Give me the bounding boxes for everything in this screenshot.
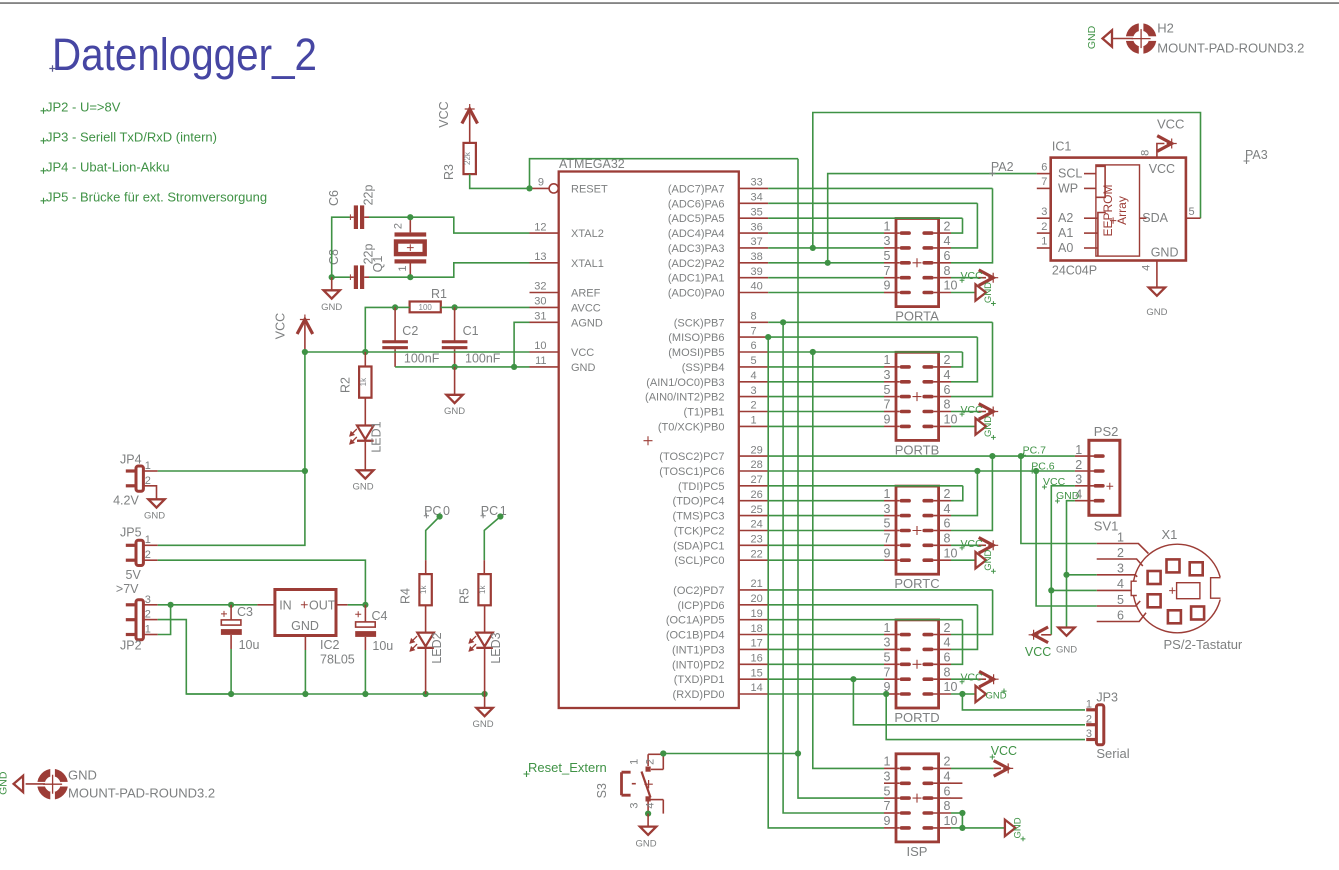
junction PC7 a (989, 453, 995, 459)
junction R1 right (452, 304, 458, 310)
label Reset_Extern (524, 760, 607, 777)
mcu pin 27 (TDI)PC5 (678, 474, 768, 493)
junction crystal pin2 (407, 214, 413, 220)
hook PC7 to PORTC pin6 (951, 456, 992, 530)
svg-text:2: 2 (944, 755, 951, 769)
svg-text:8: 8 (944, 264, 951, 278)
svg-text:IC2: IC2 (320, 638, 340, 652)
wire PA2 to PORTA pin5 (768, 262, 884, 264)
svg-text:10: 10 (944, 413, 958, 427)
label C8 value 22p (362, 244, 376, 265)
svg-text:OUT: OUT (309, 599, 336, 613)
svg-text:5: 5 (1189, 206, 1195, 218)
pin IC2 GND (304, 636, 306, 695)
svg-text:GND: GND (983, 282, 994, 303)
svg-text:IC1: IC1 (1052, 140, 1072, 154)
svg-text:PA3: PA3 (1245, 148, 1268, 162)
svg-text:RESET: RESET (571, 183, 608, 195)
hook PA5 to PORTA pin2 (951, 218, 963, 233)
label C4 value 10u (372, 639, 393, 653)
svg-text:34: 34 (751, 192, 763, 204)
svg-text:3: 3 (884, 368, 891, 382)
junction PORTD gnd (959, 691, 965, 697)
wire PB0 to PORTB pin9 (768, 425, 884, 427)
hook PD6 to PORTD pin4 (951, 605, 978, 650)
svg-text:GND: GND (1056, 645, 1077, 656)
vcc arrow PORTD pin8 (951, 671, 999, 687)
wire JP5 pin2 to OUT node (143, 560, 365, 605)
label VCC vertical (left rail) (274, 313, 288, 339)
label C2 value 100nF (404, 352, 440, 366)
svg-text:A2: A2 (1058, 211, 1073, 225)
junction PC6 a (974, 468, 980, 474)
svg-text:10: 10 (944, 546, 958, 560)
svg-text:GND: GND (1151, 245, 1179, 259)
svg-text:LED2: LED2 (430, 632, 444, 663)
svg-text:C6: C6 (327, 190, 341, 206)
switch S3 (622, 754, 664, 813)
label 5V (126, 568, 142, 582)
svg-text:MOUNT-PAD-ROUND3.2: MOUNT-PAD-ROUND3.2 (68, 786, 215, 801)
wire PA5 row (768, 217, 962, 219)
junction PA3 tap (810, 245, 816, 251)
wire VCC rail down (304, 352, 306, 471)
label LED2 (430, 632, 444, 663)
wire PB6 row (768, 336, 977, 338)
sv1 pin 3 (1075, 473, 1105, 488)
junction crystal pin1 (407, 274, 413, 280)
wire PC2 to PORTC pin5 (768, 530, 884, 532)
mcu pin 1 (T0/XCK)PB0 (658, 415, 768, 434)
vcc symbol (left rail) (297, 315, 313, 352)
svg-text:9: 9 (538, 177, 544, 189)
hook PC6 to PORTC pin4 (951, 471, 977, 516)
gnd symbol at H2 (1103, 30, 1134, 46)
wire PA3 to PORTA pin3 (768, 247, 884, 249)
mcu pin 22 (SCL)PC0 (674, 548, 768, 567)
svg-text:1: 1 (884, 487, 891, 501)
gnd symbol (crystal) (321, 277, 342, 313)
label H2 (1157, 21, 1174, 36)
junction VCC at R2 (362, 349, 368, 355)
svg-text:(SCK)PB7: (SCK)PB7 (674, 317, 725, 329)
junction R1 left (392, 304, 398, 310)
wire PB2 to PORTB pin5 (768, 396, 884, 398)
svg-text:(INT1)PD3: (INT1)PD3 (672, 644, 725, 656)
label PA2 (989, 160, 1013, 176)
mcu pin 6 (MOSI)PB5 (668, 340, 768, 359)
svg-text:29: 29 (751, 444, 763, 456)
svg-text:(AIN1/OC0)PB3: (AIN1/OC0)PB3 (646, 377, 724, 389)
svg-text:XTAL2: XTAL2 (571, 228, 604, 240)
mcu pin 21 (OC2)PD7 (673, 578, 768, 597)
hook PA7 to PORTA pin6 (951, 188, 993, 262)
junction ISP pin8 (959, 810, 965, 816)
connector JP4 (120, 452, 151, 491)
svg-text:VCC: VCC (1025, 645, 1051, 659)
svg-text:100: 100 (419, 303, 433, 312)
wire ISP pin10 gnd (951, 813, 1005, 828)
label C3 value 10u (239, 638, 260, 652)
svg-text:GND: GND (635, 839, 656, 850)
hook PB6 to PORTB pin4 (951, 337, 977, 382)
junction gnd AGND (511, 364, 517, 370)
wire PC7 to X1 pin1 (1021, 456, 1097, 543)
label S3 (595, 783, 609, 798)
svg-text:GND: GND (1146, 307, 1167, 318)
svg-text:(SCL)PC0: (SCL)PC0 (674, 555, 724, 567)
svg-text:4: 4 (944, 770, 951, 784)
label PC 1 (481, 504, 507, 518)
svg-text:GND: GND (352, 481, 373, 492)
svg-text:PORTC: PORTC (894, 576, 939, 591)
svg-text:(ADC3)PA3: (ADC3)PA3 (668, 243, 725, 255)
wire PA1 to PORTA pin7 (768, 277, 884, 279)
label R1 (431, 287, 447, 301)
junction VCC rail corner (302, 349, 308, 355)
gnd wire JP4 pin2 (143, 486, 156, 500)
label C1 value 100nF (465, 352, 501, 366)
svg-text:GND: GND (983, 550, 994, 571)
svg-text:PORTB: PORTB (895, 442, 940, 457)
mcu pin 12 XTAL2 (530, 221, 604, 240)
svg-text:1: 1 (1041, 236, 1047, 248)
svg-text:10u: 10u (239, 638, 260, 652)
mcu U ATMEGA32 body (559, 157, 739, 708)
connector JP2 (120, 594, 151, 653)
svg-text:1: 1 (884, 621, 891, 635)
svg-text:6: 6 (1041, 161, 1047, 173)
mcu pin 32 AREF (530, 281, 601, 300)
svg-text:1k: 1k (359, 377, 368, 386)
svg-text:5: 5 (884, 517, 891, 531)
svg-text:A0: A0 (1058, 241, 1073, 255)
svg-text:>7V: >7V (116, 582, 139, 596)
junction gnd bus C4 (362, 691, 368, 697)
svg-text:4: 4 (944, 502, 951, 516)
svg-text:(ICP)PD6: (ICP)PD6 (677, 600, 724, 612)
wire PC7 row to SV1 pin1 (768, 455, 1075, 457)
svg-text:AREF: AREF (571, 288, 601, 300)
svg-text:(OC2)PD7: (OC2)PD7 (673, 585, 724, 597)
hook PB5 to PORTB pin2 (951, 352, 963, 367)
wire vcc to X1 pin4 (1051, 589, 1096, 591)
svg-text:(TDO)PC4: (TDO)PC4 (673, 496, 725, 508)
connector ISP (884, 754, 958, 859)
label C8 (327, 249, 341, 265)
wire GND bus (186, 693, 484, 695)
svg-text:6: 6 (944, 383, 951, 397)
label >7V (116, 582, 139, 596)
svg-text:2: 2 (1117, 546, 1124, 560)
svg-text:(TDI)PC5: (TDI)PC5 (678, 481, 724, 493)
svg-text:22k: 22k (463, 151, 472, 165)
sv1 pin 4 (1075, 488, 1105, 503)
svg-text:GND: GND (0, 771, 10, 795)
label C1 (463, 324, 479, 338)
svg-text:Serial: Serial (1096, 746, 1129, 761)
wire PB7 row (768, 321, 992, 323)
svg-text:7: 7 (1041, 176, 1047, 188)
wire PD5 row (768, 619, 962, 621)
capacitor C1 (442, 307, 468, 367)
svg-text:(TMS)PC3: (TMS)PC3 (673, 511, 725, 523)
svg-text:12: 12 (534, 221, 546, 233)
svg-text:10: 10 (944, 680, 958, 694)
gnd symbol (JP4) (144, 499, 165, 521)
stub ISP pin4 (951, 782, 962, 784)
svg-text:39: 39 (751, 266, 763, 278)
svg-text:VCC: VCC (1157, 117, 1184, 132)
svg-text:3: 3 (884, 234, 891, 248)
svg-text:1: 1 (145, 534, 151, 546)
mcu pin 13 XTAL1 (530, 251, 604, 270)
svg-text:XTAL1: XTAL1 (571, 258, 604, 270)
mount pad GND (bottom left) (36, 768, 69, 801)
svg-text:38: 38 (751, 251, 763, 263)
label C6 value 22p (362, 185, 376, 206)
label GND pad name (68, 768, 97, 783)
svg-text:27: 27 (751, 474, 763, 486)
svg-text:GND: GND (1013, 817, 1024, 838)
label GND SV1 pin4 (1055, 490, 1080, 503)
svg-text:C1: C1 (463, 324, 479, 338)
wire PORTD pin10 gnd (951, 693, 976, 695)
wire crystal to XTAL1 (410, 263, 529, 277)
junction RESET node (526, 185, 532, 191)
wire PC1 to R5 (484, 517, 500, 575)
mcu pin 28 (TOSC1)PC6 (659, 459, 768, 478)
svg-text:PS/2-Tastatur: PS/2-Tastatur (1164, 637, 1243, 652)
mcu pin 3 (AIN0/INT2)PB2 (645, 385, 768, 404)
svg-text:4: 4 (751, 370, 757, 382)
svg-text:IN: IN (279, 599, 292, 613)
wire XTAL2 net (369, 216, 410, 218)
svg-text:2: 2 (645, 759, 657, 765)
wire PC3 to PORTC pin3 (768, 515, 884, 517)
svg-text:3: 3 (1086, 728, 1092, 740)
svg-text:7: 7 (884, 532, 891, 546)
svg-text:JP3: JP3 (1096, 691, 1118, 705)
led LED3 (469, 605, 493, 694)
eeprom GND name (1151, 245, 1179, 259)
wire JP2 pin3 input (143, 604, 257, 606)
vcc arrow PORTB pin8 (951, 404, 998, 420)
note JP3 - Seriell TxD/RxD (intern) (41, 130, 217, 145)
wire R3 to RESET pin (470, 174, 530, 188)
label VCC (X1 area) (1025, 645, 1051, 659)
junction X1 vcc (1048, 587, 1054, 593)
x1 inner pads (1148, 559, 1205, 623)
label C6 (327, 190, 341, 206)
wire AVCC to VCC rail (365, 307, 395, 352)
svg-text:(TOSC2)PC7: (TOSC2)PC7 (659, 451, 724, 463)
wire XTAL1 net (369, 276, 410, 278)
mcu pin 17 (INT1)PD3 (672, 638, 768, 657)
svg-text:6: 6 (1117, 608, 1124, 622)
svg-text:SV1: SV1 (1094, 518, 1119, 533)
label PA3 (1244, 148, 1268, 164)
svg-text:X1: X1 (1162, 527, 1178, 542)
svg-text:WP: WP (1058, 182, 1078, 196)
svg-text:PA2: PA2 (991, 160, 1014, 174)
svg-text:GND: GND (291, 619, 319, 633)
hook PD7 to PORTD pin2 (951, 590, 993, 635)
svg-text:11: 11 (535, 355, 546, 367)
svg-text:5V: 5V (126, 568, 142, 582)
svg-text:32: 32 (534, 281, 546, 293)
junction PB6/ISP tap (765, 334, 771, 340)
svg-text:PORTD: PORTD (894, 710, 939, 725)
eeprom pin 1 A0 (1037, 236, 1074, 255)
label GND PORTA (983, 282, 996, 306)
wire PB1 to PORTB pin7 (768, 411, 884, 413)
wire MOSI vertical to ISP pin1 (813, 352, 884, 768)
svg-text:R1: R1 (431, 287, 447, 301)
svg-text:30: 30 (534, 296, 546, 308)
wire PD7 row (768, 589, 992, 591)
resistor R3 (463, 143, 476, 174)
wire AVCC left (395, 306, 529, 308)
svg-text:(SDA)PC1: (SDA)PC1 (673, 540, 724, 552)
eeprom pin 4 gnd (1140, 261, 1157, 288)
mcu pin 24 (TCK)PC2 (674, 519, 768, 538)
wire PC1 to PORTC pin7 (768, 544, 884, 546)
svg-text:VCC: VCC (571, 347, 594, 359)
label C2 (402, 324, 418, 338)
svg-text:13: 13 (534, 251, 546, 263)
mount pad H2 (1125, 22, 1158, 55)
capacitor C3 (221, 605, 242, 694)
svg-text:AVCC: AVCC (571, 302, 601, 314)
junction TXD tap (850, 676, 856, 682)
svg-text:Reset_Extern: Reset_Extern (528, 760, 607, 775)
label LED1 (370, 421, 384, 452)
svg-text:2: 2 (1086, 713, 1092, 725)
svg-text:36: 36 (751, 221, 763, 233)
eeprom pin 5 SDA (1142, 206, 1200, 225)
wire PB5 row (768, 351, 962, 353)
mcu pin 4 (AIN1/OC0)PB3 (646, 370, 768, 389)
resistor R2 (359, 352, 372, 398)
svg-text:GND: GND (571, 362, 596, 374)
svg-text:(TOSC1)PC6: (TOSC1)PC6 (659, 466, 724, 478)
junction C8 gnd (329, 274, 335, 280)
note JP2 - U=>8V (41, 100, 121, 115)
mcu pin 39 (ADC1)PA1 (668, 266, 768, 285)
mcu pin 40 (ADC0)PA0 (668, 281, 768, 300)
connector X1 circle (1130, 527, 1224, 633)
wire PC0 to R4 (426, 517, 440, 575)
wire PB4 to PORTB pin1 (768, 366, 884, 368)
wire PA0 to PORTA pin9 (768, 292, 884, 294)
hook PC5 to PORTC pin2 (951, 486, 963, 501)
svg-text:JP4 - Ubat-Lion-Akku: JP4 - Ubat-Lion-Akku (46, 160, 170, 175)
svg-text:5: 5 (884, 651, 891, 665)
svg-text:2: 2 (944, 487, 951, 501)
svg-text:16: 16 (751, 653, 763, 665)
svg-text:1: 1 (1086, 699, 1092, 711)
svg-text:H2: H2 (1157, 21, 1174, 36)
svg-text:3: 3 (1041, 206, 1047, 218)
wire JP2 pin1 bridge (143, 605, 170, 635)
label R2 (339, 377, 353, 393)
wire PD1 to PORTD pin7 (768, 678, 884, 680)
svg-text:24: 24 (751, 519, 763, 531)
connector JP5 (120, 526, 151, 566)
svg-text:R2: R2 (339, 377, 353, 393)
svg-text:2: 2 (1041, 221, 1047, 233)
svg-text:1: 1 (145, 460, 151, 472)
mcu pin 30 AVCC (530, 296, 601, 315)
connector PORTB (884, 352, 958, 457)
gnd symbol at GND pad (14, 776, 45, 792)
wire PC5 row (768, 485, 963, 487)
x1 pin 4 stub (1097, 577, 1132, 591)
svg-text:GND: GND (444, 406, 465, 417)
hook PB7 to PORTB pin6 (951, 322, 993, 396)
label GND PORTB (983, 416, 996, 440)
svg-text:4: 4 (645, 803, 657, 809)
svg-text:3: 3 (884, 502, 891, 516)
hook PD5 to PORTD pin6 (951, 620, 963, 665)
svg-text:4: 4 (944, 636, 951, 650)
wire SV1 pin4 GND (1067, 501, 1075, 628)
svg-text:1: 1 (884, 219, 891, 233)
svg-text:(AIN0/INT2)PB2: (AIN0/INT2)PB2 (645, 392, 724, 404)
svg-text:8: 8 (751, 311, 757, 323)
eeprom pin 8 vcc (1139, 136, 1176, 158)
wire gnd to X1 pin3 (1067, 574, 1097, 576)
svg-text:2: 2 (1075, 458, 1082, 472)
vcc arrow (X1 area) (1029, 627, 1052, 643)
mcu pin 33 (ADC7)PA7 (668, 177, 768, 196)
svg-text:5: 5 (1117, 593, 1124, 607)
eeprom pin 3 A2 (1037, 206, 1074, 225)
resistor R5 (478, 574, 491, 605)
label GND at H2 (green) (1086, 25, 1098, 49)
svg-text:LED1: LED1 (370, 421, 384, 452)
svg-text:8: 8 (944, 799, 951, 813)
wire MISO vertical to ISP pin9 (768, 337, 884, 828)
wire PA4 to PORTA pin1 (768, 232, 884, 234)
svg-text:1: 1 (884, 353, 891, 367)
mcu pin 34 (ADC6)PA6 (668, 192, 768, 211)
gnd arrow ISP (1005, 820, 1016, 836)
svg-text:SDA: SDA (1142, 211, 1168, 225)
label VCC PORTB (960, 404, 983, 417)
svg-text:0: 0 (443, 504, 450, 518)
wire PA2 net to EEPROM SCL (828, 174, 1037, 263)
mcu pin 7 (MISO)PB6 (668, 325, 768, 344)
svg-text:(OC1B)PD4: (OC1B)PD4 (666, 630, 725, 642)
svg-text:8: 8 (944, 398, 951, 412)
svg-text:6: 6 (751, 340, 757, 352)
vcc arrow PORTC pin8 (951, 538, 998, 554)
svg-text:(TXD)PD1: (TXD)PD1 (674, 674, 725, 686)
junction OUT node (362, 602, 368, 608)
svg-text:33: 33 (751, 177, 763, 189)
regulator IC2 78L05 (275, 590, 336, 636)
wire VCC rail horizontal (305, 351, 530, 353)
x1 pin 2 stub (1097, 546, 1143, 566)
wire PB3 to PORTB pin3 (768, 381, 884, 383)
svg-text:2: 2 (944, 621, 951, 635)
label GND at pad (green) (0, 771, 10, 795)
wire PD2 to PORTD pin5 (768, 663, 884, 665)
led LED2 (410, 605, 434, 694)
mcu pin 23 (SDA)PC1 (673, 534, 768, 553)
